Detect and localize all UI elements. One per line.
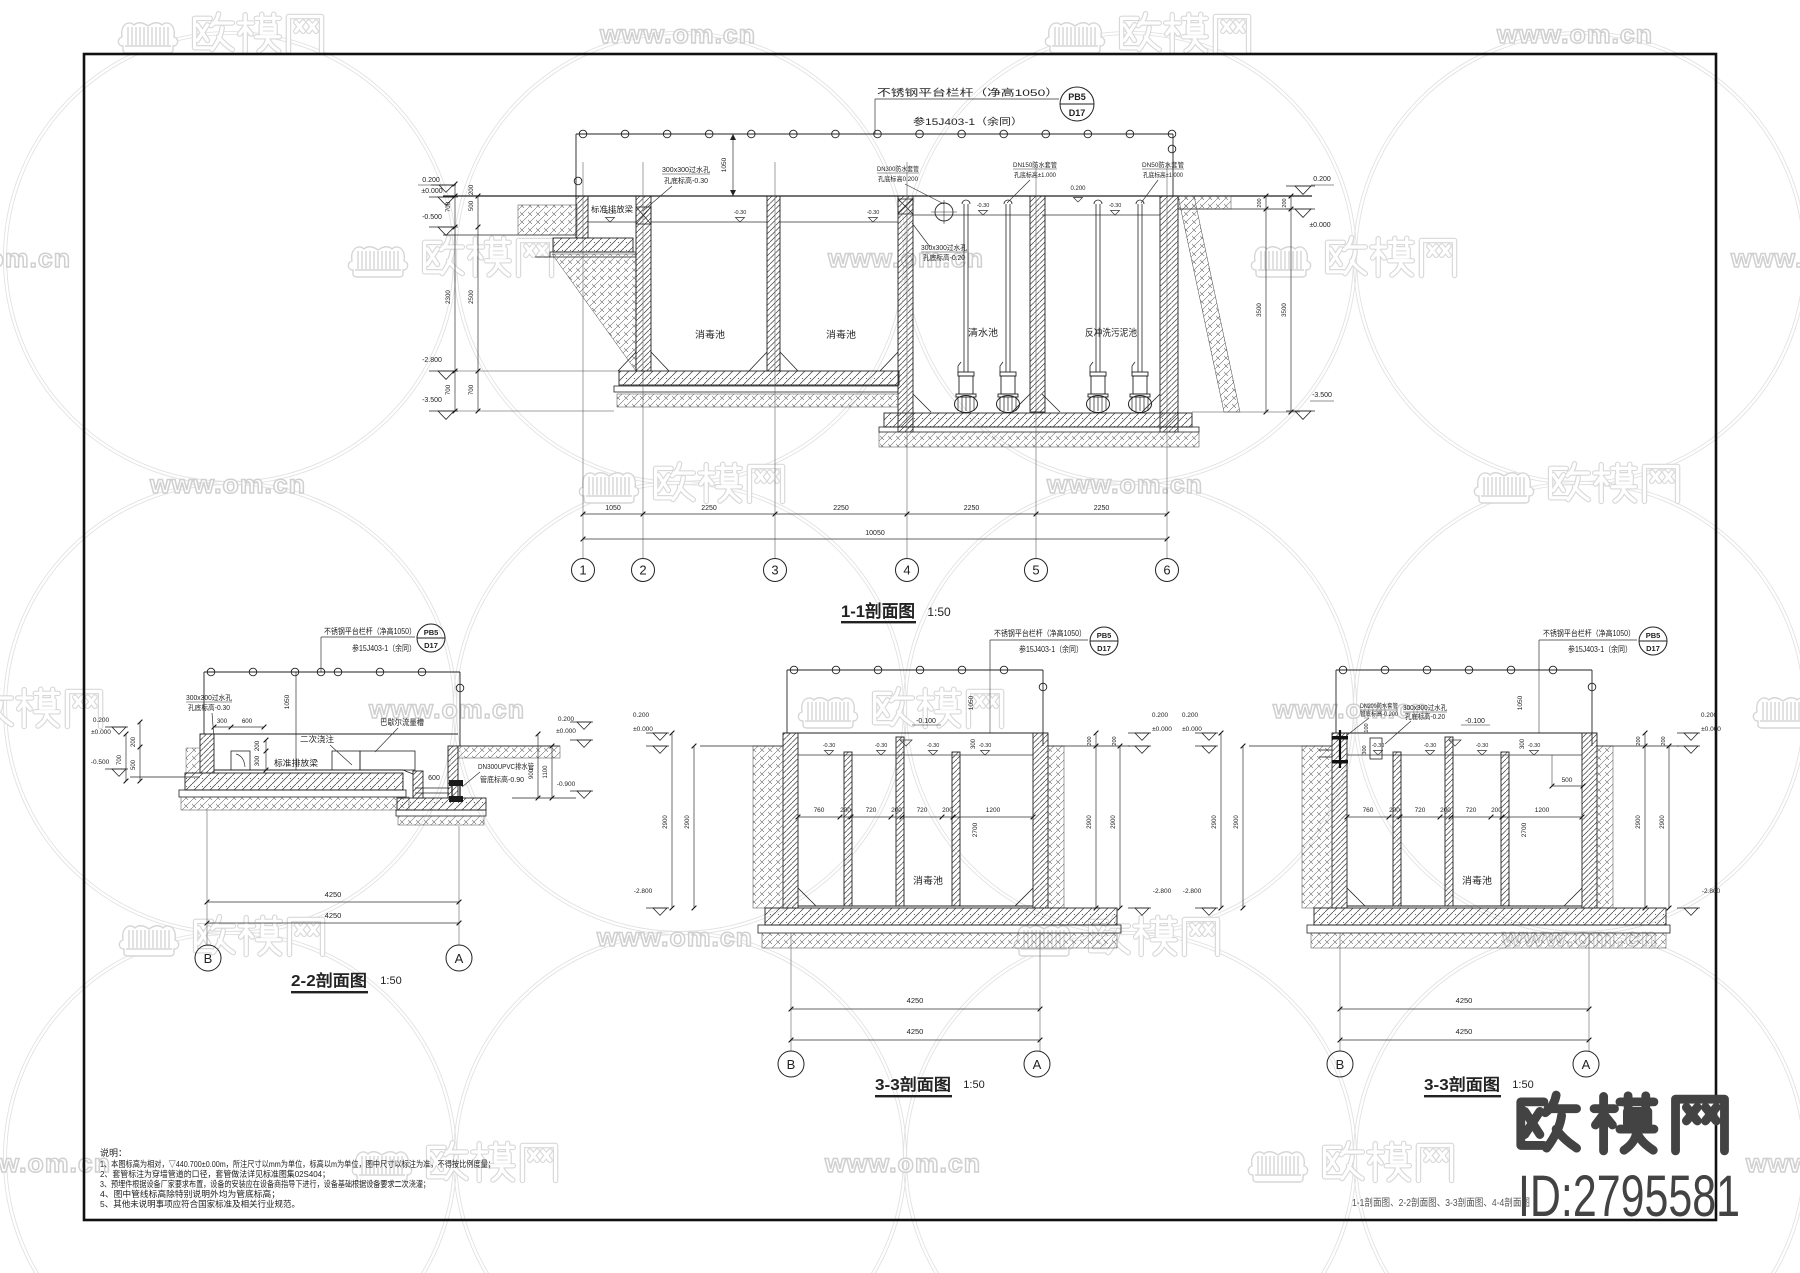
svg-text:500: 500	[1562, 777, 1573, 784]
section 1-1 cut view	[418, 87, 1334, 623]
svg-text:孔底标高-0.20: 孔底标高-0.20	[923, 253, 965, 262]
svg-text:0.200: 0.200	[1313, 176, 1331, 183]
svg-text:-0.100: -0.100	[1465, 718, 1485, 725]
svg-text:-0.900: -0.900	[557, 781, 576, 788]
wall grid6 right outer	[1160, 196, 1178, 432]
detail bubble PB5/D17	[1060, 87, 1094, 121]
water levels 1-1	[588, 221, 636, 223]
handrail label leader 3-3	[989, 640, 991, 670]
dims 300 600	[214, 726, 264, 728]
svg-text:±0.000: ±0.000	[633, 726, 653, 733]
hole detail box	[231, 751, 250, 770]
svg-text:DN200防水套管: DN200防水套管	[1360, 702, 1398, 710]
svg-text:1-1剖面图、2-2剖面图、3-3剖面图、4-4剖面图: 1-1剖面图、2-2剖面图、3-3剖面图、4-4剖面图	[1352, 1196, 1530, 1209]
drain pipe	[449, 780, 463, 786]
svg-text:PB5: PB5	[1646, 631, 1661, 640]
svg-text:200: 200	[131, 736, 137, 747]
excavation slope left	[552, 254, 636, 371]
svg-text:600: 600	[242, 718, 253, 725]
svg-text:1200: 1200	[986, 807, 1001, 814]
svg-text:参15J403-1（余同）: 参15J403-1（余同）	[1019, 644, 1083, 654]
site logo	[1521, 1095, 1725, 1151]
svg-text:±0.000: ±0.000	[556, 728, 576, 735]
water line 3-3	[798, 754, 1033, 756]
dim row spans 1-1	[583, 513, 1167, 515]
svg-text:2900: 2900	[1212, 815, 1218, 829]
detail bubble PB5/D17 2-2	[417, 624, 445, 652]
right wall 3-3	[1582, 733, 1597, 908]
svg-text:管底标高-0.90: 管底标高-0.90	[480, 774, 524, 784]
svg-text:说明：: 说明：	[100, 1147, 127, 1158]
svg-text:2700: 2700	[1521, 822, 1528, 837]
svg-text:4250: 4250	[1456, 1027, 1473, 1036]
svg-text:2900: 2900	[1234, 815, 1240, 829]
svg-text:5: 5	[1032, 563, 1039, 578]
svg-text:200: 200	[840, 807, 851, 814]
svg-text:0.200: 0.200	[1070, 186, 1086, 192]
left wall 2-2	[200, 734, 214, 773]
svg-text:2900: 2900	[1087, 815, 1093, 829]
svg-text:700: 700	[445, 201, 452, 212]
svg-text:3500: 3500	[1281, 303, 1288, 317]
svg-text:4250: 4250	[325, 911, 342, 920]
svg-text:±0.000: ±0.000	[1701, 726, 1721, 733]
level extension lines	[455, 370, 619, 372]
svg-text:www.om.cn: www.om.cn	[0, 243, 71, 273]
svg-text:300x300过水孔: 300x300过水孔	[1403, 703, 1447, 712]
svg-text:0.200: 0.200	[93, 717, 110, 724]
grid bubbles 3-3	[778, 1051, 804, 1077]
svg-text:-3.500: -3.500	[1312, 392, 1332, 399]
dims 4250 3-3	[791, 1008, 1040, 1010]
svg-text:参15J403-1（余同）: 参15J403-1（余同）	[352, 643, 416, 653]
weir chamber wall	[576, 196, 588, 238]
svg-text:ID:2795581: ID:2795581	[1518, 1164, 1740, 1229]
svg-text:500: 500	[131, 759, 137, 770]
svg-text:1200: 1200	[1535, 807, 1550, 814]
svg-text:600: 600	[428, 775, 440, 782]
svg-text:DN300UPVC排水管: DN300UPVC排水管	[478, 761, 534, 771]
svg-text:200: 200	[1491, 807, 1502, 814]
svg-text:标准排放梁: 标准排放梁	[591, 204, 633, 214]
svg-text:参15J403-1（余同）: 参15J403-1（余同）	[1568, 644, 1632, 654]
svg-text:±0.000: ±0.000	[1182, 726, 1202, 733]
ground strip right	[1178, 196, 1231, 209]
svg-text:5、其他未说明事项应符合国家标准及相关行业规范。: 5、其他未说明事项应符合国家标准及相关行业规范。	[100, 1199, 300, 1209]
tank floor slab right	[884, 413, 1192, 427]
svg-text:0.200: 0.200	[1182, 712, 1199, 719]
dim 1050 rail height	[732, 134, 734, 196]
svg-text:不锈钢平台栏杆（净高1050）: 不锈钢平台栏杆（净高1050）	[1543, 628, 1635, 638]
svg-text:-0.30: -0.30	[875, 743, 888, 749]
dim 1050 2-2	[295, 672, 297, 770]
svg-text:3、预埋件根据设备厂家要求布置，设备的安装应在设备商指导下进: 3、预埋件根据设备厂家要求布置，设备的安装应在设备商指导下进行，设备基础根据设备…	[100, 1179, 430, 1189]
tank floor slab left	[619, 371, 899, 385]
handrail 1-1	[576, 133, 1173, 135]
wall grid5	[1030, 196, 1045, 412]
svg-text:0.200: 0.200	[1701, 712, 1718, 719]
svg-text:DN150防水套管: DN150防水套管	[1013, 160, 1057, 169]
svg-text:200: 200	[891, 807, 902, 814]
svg-text:-0.30: -0.30	[1424, 743, 1437, 749]
svg-text:www.om.cn: www.om.cn	[0, 1148, 111, 1178]
svg-text:孔底标高±1.000: 孔底标高±1.000	[1143, 170, 1183, 179]
svg-text:孔底标高-0.30: 孔底标高-0.30	[188, 703, 230, 712]
svg-text:A: A	[455, 951, 464, 966]
svg-text:1、本图标高为相对，▽440.700±0.00m，所注尺寸以: 1、本图标高为相对，▽440.700±0.00m，所注尺寸以mm为单位，标高以m…	[100, 1159, 495, 1169]
svg-text:720: 720	[866, 807, 877, 814]
grid bubbles 2-2	[195, 945, 221, 971]
svg-text:3500: 3500	[1256, 303, 1263, 317]
svg-text:标准排放梁: 标准排放梁	[274, 758, 319, 768]
handrail 3-3	[787, 669, 1043, 671]
svg-text:2900: 2900	[1660, 815, 1666, 829]
svg-text:200: 200	[1389, 807, 1400, 814]
baffle walls	[844, 752, 852, 906]
svg-text:A: A	[1033, 1057, 1042, 1072]
svg-text:200: 200	[942, 807, 953, 814]
svg-text:B: B	[1336, 1057, 1345, 1072]
svg-text:±0.000: ±0.000	[91, 729, 111, 736]
svg-text:200: 200	[254, 740, 261, 751]
svg-text:200: 200	[1087, 736, 1093, 745]
excavation slope right	[1178, 196, 1240, 412]
svg-text:500: 500	[468, 200, 475, 211]
earth behind walls	[753, 746, 783, 908]
svg-text:1050: 1050	[968, 695, 975, 710]
svg-text:3-3剖面图: 3-3剖面图	[875, 1075, 951, 1094]
svg-text:-0.100: -0.100	[916, 718, 936, 725]
svg-text:清水池: 清水池	[968, 327, 999, 339]
svg-text:www.om.cn: www.om.cn	[1496, 19, 1653, 49]
svg-text:4250: 4250	[1456, 996, 1473, 1005]
svg-text:200: 200	[1282, 198, 1288, 207]
right wall 3-3	[1033, 733, 1048, 908]
dim 1050 3-3	[989, 670, 991, 733]
ground right 2-2	[458, 745, 560, 747]
natural ground left	[443, 234, 577, 236]
svg-text:-0.30: -0.30	[1476, 743, 1489, 749]
earth behind walls	[1302, 746, 1332, 908]
svg-text:www.om.cn: www.om.cn	[149, 469, 306, 499]
svg-text:2900: 2900	[685, 815, 691, 829]
svg-text:1050: 1050	[721, 157, 728, 172]
grid bubbles 3-3	[1327, 1051, 1353, 1077]
svg-text:2、套管标注为穿墙管道的口径，套管做法详见标准图集02S40: 2、套管标注为穿墙管道的口径，套管做法详见标准图集02S404；	[100, 1169, 330, 1179]
svg-text:1: 1	[579, 563, 586, 578]
svg-text:700: 700	[445, 384, 452, 395]
dim 1050 3-3	[1538, 670, 1540, 733]
svg-text:720: 720	[1415, 807, 1426, 814]
section 2-2 cut view	[91, 624, 593, 993]
svg-text:3-3剖面图: 3-3剖面图	[1424, 1075, 1500, 1094]
svg-text:-0.30: -0.30	[1109, 203, 1122, 209]
svg-text:-2.800: -2.800	[1702, 888, 1721, 895]
sump right wall	[448, 746, 458, 798]
svg-text:-0.30: -0.30	[977, 203, 990, 209]
svg-text:4250: 4250	[907, 1027, 924, 1036]
wall pipe detail right 3-3	[1339, 730, 1341, 768]
svg-text:200: 200	[1661, 736, 1667, 745]
svg-text:0.200: 0.200	[633, 712, 650, 719]
weir floor slab	[553, 238, 633, 252]
svg-text:±0.000: ±0.000	[1152, 726, 1172, 733]
wall grid2	[636, 196, 651, 371]
svg-text:PB5: PB5	[1068, 92, 1086, 102]
svg-text:2900: 2900	[1636, 815, 1642, 829]
wall grid4	[898, 196, 913, 432]
svg-text:消毒池: 消毒池	[826, 329, 857, 341]
svg-text:1050: 1050	[1517, 695, 1524, 710]
dims 200 300 vertical	[265, 740, 267, 770]
floor slab 2-2	[185, 773, 403, 790]
svg-text:A: A	[1582, 1057, 1591, 1072]
submersible pumps	[963, 204, 965, 372]
svg-text:-2.800: -2.800	[422, 357, 442, 364]
svg-text:2250: 2250	[1094, 505, 1110, 512]
svg-text:PB5: PB5	[1097, 631, 1112, 640]
svg-text:-0.30: -0.30	[1528, 743, 1541, 749]
svg-text:-0.30: -0.30	[823, 743, 836, 749]
svg-text:±0.000: ±0.000	[1309, 222, 1330, 229]
svg-text:0.200: 0.200	[422, 177, 440, 184]
svg-text:-0.500: -0.500	[91, 759, 110, 766]
svg-text:100: 100	[1364, 723, 1370, 732]
svg-text:2300: 2300	[445, 290, 452, 304]
svg-text:www.om.cn: www.om.cn	[1745, 1148, 1800, 1178]
floor 3-3	[1347, 905, 1582, 907]
svg-text:1050: 1050	[605, 505, 621, 512]
handrail 2-2	[204, 671, 460, 673]
handrail label leader 3-3	[1538, 640, 1540, 670]
sump structure	[413, 771, 423, 798]
svg-text:720: 720	[917, 807, 928, 814]
ground left 2-2	[130, 776, 200, 778]
svg-text:700: 700	[117, 754, 123, 765]
svg-text:-3.500: -3.500	[422, 397, 442, 404]
svg-text:不锈钢平台栏杆（净高1050）: 不锈钢平台栏杆（净高1050）	[324, 626, 416, 636]
svg-text:2250: 2250	[701, 505, 717, 512]
svg-text:300: 300	[217, 718, 228, 725]
wall hole 300x300 grid4	[898, 199, 913, 214]
svg-text:200: 200	[468, 184, 475, 195]
grid lines 2-2	[206, 810, 208, 945]
baffle walls	[1393, 752, 1401, 906]
dim total 1-1	[583, 538, 1167, 540]
svg-text:1:50: 1:50	[963, 1079, 984, 1091]
detail bubble PB5/D17 3-3	[1639, 627, 1667, 655]
dim chain right 1-1	[1265, 196, 1267, 412]
water line 3-3	[1347, 754, 1582, 756]
svg-text:1-1剖面图: 1-1剖面图	[841, 601, 915, 621]
top line 3-3	[1332, 732, 1597, 734]
svg-text:2: 2	[639, 563, 646, 578]
svg-text:4: 4	[903, 563, 910, 578]
inner dim chain 3-3	[1347, 816, 1582, 818]
dims 4250 2-2	[207, 901, 459, 903]
svg-text:300: 300	[971, 738, 977, 749]
svg-text:-2.800: -2.800	[634, 888, 653, 895]
svg-text:200: 200	[1112, 736, 1118, 745]
svg-text:700: 700	[468, 384, 475, 395]
svg-text:-0.30: -0.30	[979, 743, 992, 749]
svg-text:2250: 2250	[833, 505, 849, 512]
svg-text:-0.30: -0.30	[734, 210, 747, 216]
svg-text:www.om.cn: www.om.cn	[596, 922, 753, 952]
wall hole 300x300 grid2	[636, 207, 651, 224]
svg-text:0.200: 0.200	[1152, 712, 1169, 719]
svg-text:2-2剖面图: 2-2剖面图	[291, 971, 367, 990]
svg-text:孔底标高±1.000: 孔底标高±1.000	[1014, 170, 1056, 179]
svg-text:www.om.cn: www.om.cn	[1730, 243, 1800, 273]
svg-text:孔底标高-0.30: 孔底标高-0.30	[664, 176, 708, 185]
svg-text:4250: 4250	[907, 996, 924, 1005]
svg-text:6: 6	[1163, 563, 1170, 578]
svg-text:1:50: 1:50	[380, 975, 401, 987]
svg-text:-0.30: -0.30	[867, 210, 880, 216]
svg-text:B: B	[787, 1057, 796, 1072]
left wall 3-3	[783, 733, 798, 908]
channel top line	[200, 733, 458, 735]
svg-text:760: 760	[1363, 807, 1374, 814]
svg-text:-0.30: -0.30	[927, 743, 940, 749]
parshall flume	[332, 751, 360, 770]
svg-text:4250: 4250	[325, 890, 342, 899]
svg-text:2900: 2900	[1111, 815, 1117, 829]
svg-text:300: 300	[254, 755, 261, 766]
svg-text:DN50防水套管: DN50防水套管	[1142, 160, 1184, 169]
svg-text:-2.800: -2.800	[1183, 888, 1202, 895]
handrail label leader 1-1	[874, 99, 876, 134]
wall base chamfers	[651, 352, 669, 371]
wall grid3	[767, 196, 780, 371]
svg-text:巴歇尔流量槽: 巴歇尔流量槽	[380, 717, 424, 727]
svg-text:孔底标高0.200: 孔底标高0.200	[878, 174, 918, 183]
svg-text:2900: 2900	[663, 815, 669, 829]
svg-text:900: 900	[529, 768, 535, 779]
svg-text:10050: 10050	[865, 530, 885, 537]
svg-text:DN300防水套管: DN300防水套管	[877, 164, 919, 173]
svg-text:2700: 2700	[972, 822, 979, 837]
svg-text:2500: 2500	[468, 290, 475, 304]
svg-text:参15J403-1（余同）: 参15J403-1（余同）	[913, 116, 1023, 128]
svg-text:不锈钢平台栏杆（净高1050）: 不锈钢平台栏杆（净高1050）	[877, 87, 1059, 99]
dim chain left 1-1	[454, 184, 456, 411]
platform top line 0.000	[443, 195, 1312, 197]
grid lines 3-3	[790, 933, 792, 1051]
svg-text:200: 200	[1440, 807, 1451, 814]
svg-text:±0.000: ±0.000	[421, 188, 442, 195]
svg-text:B: B	[204, 951, 213, 966]
DN300 sleeve	[935, 203, 953, 221]
svg-text:www.om.cn: www.om.cn	[599, 19, 756, 49]
svg-text:1100: 1100	[543, 765, 549, 779]
svg-text:消毒池: 消毒池	[913, 875, 944, 887]
svg-text:4、图中管线标高除特别说明外均为管底标高；: 4、图中管线标高除特别说明外均为管底标高；	[100, 1189, 280, 1199]
svg-text:300: 300	[1520, 738, 1526, 749]
left wall 3-3	[1332, 733, 1347, 908]
grid lines 1-1	[582, 162, 584, 558]
svg-text:300x300过水孔: 300x300过水孔	[186, 693, 232, 702]
dim 500	[1552, 785, 1583, 787]
svg-text:300: 300	[1362, 745, 1368, 754]
floor 3-3	[798, 905, 1033, 907]
grid bubbles 1-1	[572, 559, 595, 582]
svg-text:2250: 2250	[964, 505, 980, 512]
svg-text:二次浇注: 二次浇注	[300, 734, 334, 744]
svg-text:1:50: 1:50	[927, 605, 951, 619]
svg-text:300x300过水孔: 300x300过水孔	[662, 165, 710, 174]
svg-text:D17: D17	[1646, 644, 1660, 653]
handrail label leader 2-2	[320, 637, 322, 672]
dims 4250 3-3	[1340, 1008, 1589, 1010]
svg-text:-2.800: -2.800	[1153, 888, 1172, 895]
svg-text:720: 720	[1466, 807, 1477, 814]
svg-text:D17: D17	[1069, 108, 1086, 118]
svg-text:孔底标高-0.20: 孔底标高-0.20	[1405, 712, 1445, 721]
handrail 3-3	[1336, 669, 1592, 671]
svg-text:1:50: 1:50	[1512, 1079, 1533, 1091]
svg-text:200: 200	[1257, 198, 1263, 207]
detail bubble PB5/D17 3-3	[1090, 627, 1118, 655]
svg-text:760: 760	[814, 807, 825, 814]
svg-text:反冲洗污泥池: 反冲洗污泥池	[1085, 327, 1137, 339]
inner dim chain 3-3	[798, 816, 1033, 818]
svg-text:3: 3	[771, 563, 778, 578]
channel floor	[214, 769, 403, 771]
svg-text:D17: D17	[424, 641, 438, 650]
svg-text:200: 200	[1636, 736, 1642, 745]
svg-text:www.om.cn: www.om.cn	[1046, 469, 1203, 499]
svg-text:D17: D17	[1097, 644, 1111, 653]
grid lines 3-3	[1339, 933, 1341, 1051]
svg-text:管底标高-0.200: 管底标高-0.200	[1360, 710, 1399, 718]
top line 3-3	[783, 732, 1048, 734]
watermark logos	[118, 14, 321, 53]
svg-text:1050: 1050	[284, 694, 291, 709]
svg-text:消毒池: 消毒池	[695, 329, 726, 341]
svg-text:www.om.cn: www.om.cn	[824, 1148, 981, 1178]
svg-text:不锈钢平台栏杆（净高1050）: 不锈钢平台栏杆（净高1050）	[994, 628, 1086, 638]
svg-text:PB5: PB5	[424, 628, 439, 637]
svg-text:消毒池: 消毒池	[1462, 875, 1493, 887]
svg-text:-0.500: -0.500	[422, 214, 442, 221]
